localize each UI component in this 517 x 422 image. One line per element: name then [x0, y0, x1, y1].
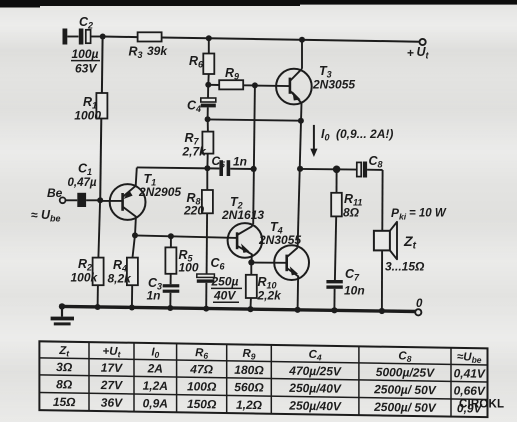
wire C8 to speaker drop [367, 169, 383, 171]
wire to speaker [381, 170, 383, 231]
wire R2 to ground rail [97, 285, 99, 307]
svg-text:2A: 2A [147, 361, 163, 375]
svg-text:C5: C5 [212, 154, 226, 170]
label R1 1000 [74, 95, 101, 123]
wire node B to R8 [206, 168, 208, 190]
watermark CIROKL [459, 399, 504, 411]
T4 base bar [285, 255, 288, 272]
T4 emitter line (down) [287, 268, 299, 277]
capacitor C4 [201, 98, 216, 107]
svg-text:10n: 10n [344, 284, 365, 298]
table data row 1 [56, 360, 486, 381]
wire C7 to ground rail [333, 289, 335, 310]
resistor R11 [331, 193, 342, 217]
capacitor C2 [79, 29, 101, 45]
svg-text:C6: C6 [211, 256, 226, 272]
wire R9 to node D [243, 84, 255, 86]
wire node C to R9 [208, 84, 219, 86]
svg-text:1,2Ω: 1,2Ω [236, 398, 263, 412]
T4 emitter arrow (NPN) [290, 266, 298, 275]
label R5 100 [179, 248, 199, 275]
label +Ut [407, 45, 430, 61]
svg-text:470µ/25V: 470µ/25V [288, 364, 342, 379]
resistor R2 [93, 258, 104, 286]
terminal +Ut [420, 39, 426, 45]
svg-text:C4: C4 [309, 349, 322, 363]
svg-text:2N1613: 2N1613 [221, 208, 264, 222]
svg-text:2N3055: 2N3055 [258, 233, 301, 247]
junction dot rail/R6 [206, 35, 212, 41]
svg-text:8,2k: 8,2k [108, 272, 133, 286]
label C6 value 250u/40V [211, 275, 243, 303]
T2 collector line (up) [237, 224, 253, 235]
label T3 [319, 64, 332, 80]
table grid [39, 341, 487, 417]
label R10 2.2k [257, 275, 283, 303]
svg-text:2,7k: 2,7k [182, 145, 208, 159]
wire bootstrap to output [208, 119, 301, 120]
label C3 1n [147, 276, 163, 303]
T2 emitter line (down) [237, 246, 252, 262]
junction dot ground/R10 [247, 306, 253, 312]
svg-text:0,47µ: 0,47µ [68, 177, 97, 189]
junction dot ground/C6 [203, 306, 209, 312]
T3 base bar [289, 78, 292, 94]
label T3 type 2N3055 [312, 78, 355, 92]
label R9 [225, 66, 239, 82]
T1 emitter line (up) [123, 168, 137, 197]
svg-text:1000: 1000 [74, 109, 101, 123]
svg-text:(0,9... 2A!): (0,9... 2A!) [336, 127, 393, 141]
junction dot ground/R4 [129, 305, 135, 311]
label T4 [270, 220, 283, 236]
resistor R3 [138, 32, 162, 41]
wire rail to R6 [208, 38, 210, 53]
terminal Be input [60, 197, 66, 203]
label T1 type 2N2905 [138, 185, 181, 199]
svg-text:100: 100 [179, 261, 199, 275]
label Zt range [385, 260, 425, 274]
ground symbol [51, 306, 74, 325]
label C6 [211, 256, 226, 272]
svg-text:C4: C4 [187, 99, 201, 115]
transistor T1 circle [110, 184, 146, 220]
label Ube input [31, 208, 61, 224]
T1 base bar [121, 193, 124, 211]
capacitor C3 [163, 284, 180, 293]
junction dot ground/C3 [167, 305, 173, 311]
label T2 type 2N1613 [221, 208, 264, 222]
svg-text:Pki: Pki [391, 206, 407, 222]
junction dot output node [297, 166, 303, 172]
svg-text:1n: 1n [147, 289, 161, 303]
wire T4 emitter to ground rail [297, 277, 300, 310]
svg-text:560Ω: 560Ω [234, 380, 264, 394]
label C7 10n [344, 267, 365, 298]
resistor R9 [219, 80, 243, 89]
label R11 8ohm [343, 192, 362, 220]
svg-text:8Ω: 8Ω [343, 206, 360, 220]
wire node A to R1 [101, 37, 104, 94]
label R7 2.7k [182, 131, 208, 159]
svg-text:0,9A: 0,9A [143, 396, 168, 410]
wire R7 to node B [206, 154, 208, 169]
wire speaker to ground rail [381, 251, 383, 311]
wire node C to C4 [207, 85, 209, 98]
wire Be to C1 [66, 199, 78, 201]
wire R5 top [170, 236, 172, 247]
label C1 [78, 162, 92, 178]
component value table [39, 341, 487, 417]
svg-text:2500µ/ 50V: 2500µ/ 50V [373, 382, 437, 397]
label C2 [79, 15, 93, 31]
junction dot bootstrap/output riser [298, 118, 304, 124]
svg-text:47Ω: 47Ω [189, 362, 213, 376]
label Zt [403, 233, 417, 252]
junction dot ground/T4e [295, 307, 301, 313]
wire T2e to T4 base [251, 262, 286, 264]
junction dot T1 collector [132, 232, 138, 238]
label R8 220 [183, 191, 204, 218]
label Io value [321, 127, 393, 143]
svg-text:R3: R3 [129, 45, 143, 61]
svg-text:100Ω: 100Ω [187, 379, 217, 393]
svg-text:0,66V: 0,66V [454, 384, 486, 399]
svg-text:R9: R9 [225, 66, 239, 82]
svg-text:R6: R6 [189, 54, 204, 70]
svg-text:Ube: Ube [41, 208, 61, 224]
svg-text:2N2905: 2N2905 [138, 185, 181, 199]
svg-text:220: 220 [183, 204, 204, 218]
label C4 [187, 99, 201, 115]
svg-text:250µ/40V: 250µ/40V [288, 381, 342, 396]
wire T2e node to R10 [250, 263, 252, 275]
svg-text:R9: R9 [242, 348, 255, 362]
wire node D to T2 collector [253, 85, 255, 224]
resistor R4 [127, 258, 138, 286]
label 0 [416, 298, 423, 310]
wire R1 to base node [100, 119, 101, 200]
svg-text:40V: 40V [213, 289, 236, 303]
wire R11 top [336, 169, 338, 192]
svg-text:+: + [407, 46, 414, 60]
label R6 [189, 54, 204, 70]
junction dot C5/T2 collector [251, 166, 257, 172]
label Be [47, 186, 63, 200]
capacitor C1 (solid body) [77, 193, 86, 207]
label T2 [230, 195, 243, 211]
junction dot R5 top [168, 233, 174, 239]
junction dot T2e/R10/T4 base [248, 259, 254, 265]
wire C4 to node E [207, 107, 209, 119]
label C5 [212, 154, 226, 170]
svg-text:17V: 17V [101, 361, 123, 375]
T1 emitter arrow (PNP, into base) [124, 190, 133, 199]
transistor T2 circle [228, 223, 263, 258]
transistor T3 circle [276, 69, 312, 105]
capacitor C8 [357, 162, 367, 178]
wire output riser [298, 103, 302, 248]
label C8 [369, 154, 383, 170]
svg-text:63V: 63V [75, 62, 97, 76]
wire C6 to ground rail [205, 283, 207, 309]
svg-text:+Ut: +Ut [103, 346, 122, 360]
svg-text:5000µ/25V: 5000µ/25V [376, 365, 435, 380]
junction dot node D (R9/T3 base/T2 collector) [252, 82, 258, 88]
wire R4 to ground rail [131, 285, 133, 307]
wire base line to C6 [206, 237, 208, 274]
svg-text:2N3055: 2N3055 [312, 78, 355, 92]
svg-text:R6: R6 [195, 347, 208, 361]
wire T1 collector to T2 base [135, 235, 237, 238]
wire C1 to base node [86, 199, 100, 201]
wire T1 collector to R4 [133, 236, 135, 258]
svg-text:39k: 39k [147, 44, 168, 58]
table data row 2 [56, 377, 486, 398]
junction dot ground symbol [59, 303, 65, 309]
current Io arrow [310, 125, 317, 157]
label Pki [391, 206, 447, 222]
svg-text:Zt: Zt [403, 233, 417, 252]
junction dot ground/speaker [379, 308, 385, 314]
label C2 value 100u/63V [71, 47, 100, 76]
table header row [58, 345, 482, 365]
svg-text:250µ: 250µ [211, 275, 239, 289]
ground rail [62, 306, 416, 311]
svg-text:C2: C2 [79, 15, 93, 31]
label R2 100k [71, 257, 99, 285]
speaker Zt horn [390, 222, 397, 259]
wire T1 emitter to node B [137, 167, 220, 168]
svg-text:3Ω: 3Ω [56, 360, 73, 374]
resistor R6 [203, 54, 214, 75]
svg-text:I0: I0 [321, 127, 330, 143]
svg-text:250µ/40V: 250µ/40V [288, 399, 342, 414]
wire C5 to T2 collector line [230, 168, 253, 170]
wire R6 to node C [207, 74, 209, 85]
T1 collector line (down) [123, 207, 136, 236]
svg-text:CIROKL: CIROKL [459, 399, 504, 411]
svg-text:180Ω: 180Ω [234, 363, 264, 377]
resistor R7 [202, 132, 213, 154]
speaker Zt box [374, 231, 390, 251]
T2 emitter arrow (NPN) [241, 244, 250, 253]
svg-text:3...15Ω: 3...15Ω [385, 260, 425, 274]
junction dot ground/C7 [331, 307, 337, 313]
wire R8 to T2 base line [206, 213, 208, 237]
resistor R10 [246, 275, 257, 298]
junction dot R11 top [333, 166, 341, 174]
svg-text:2500µ/ 50V: 2500µ/ 50V [373, 400, 437, 415]
junction dot ground/R2 [95, 304, 101, 310]
svg-text:Zt: Zt [58, 345, 70, 358]
label R3 39k [129, 44, 169, 60]
svg-text:1n: 1n [233, 155, 247, 169]
T3 collector line (up) [290, 69, 302, 81]
label T1 [144, 172, 157, 188]
border frame bar (scan edge) [0, 0, 517, 8]
label T4 type 2N3055 [258, 233, 301, 247]
svg-text:100µ: 100µ [72, 47, 99, 61]
table data row 3 [53, 395, 483, 416]
svg-text:100k: 100k [71, 271, 99, 285]
T3 emitter arrow (NPN) [292, 91, 300, 100]
svg-text:C8: C8 [369, 154, 383, 170]
svg-text:150Ω: 150Ω [187, 397, 217, 411]
capacitor C5 [219, 160, 230, 176]
resistor R1 [96, 93, 107, 119]
wire T3 collector to rail [301, 40, 303, 69]
svg-text:C8: C8 [398, 350, 411, 364]
label C1 value [68, 177, 97, 189]
svg-text:8Ω: 8Ω [56, 377, 73, 391]
svg-text:0: 0 [416, 298, 423, 310]
svg-text:I0: I0 [151, 346, 159, 359]
capacitor C6 [197, 274, 215, 283]
junction dot node C (R6/R9/C4) [205, 82, 211, 88]
junction dot rail/T3 collector [299, 37, 305, 43]
svg-text:36V: 36V [101, 396, 123, 410]
node A junction dot [100, 34, 106, 40]
svg-text:C7: C7 [345, 267, 360, 283]
svg-text:= 10 W: = 10 W [409, 208, 447, 220]
wire node E to R7 [207, 119, 209, 131]
transistor T4 circle [274, 245, 309, 280]
T3 emitter line (down) [290, 91, 302, 103]
svg-text:2,2k: 2,2k [257, 289, 283, 303]
svg-text:C1: C1 [78, 162, 92, 178]
wire C3 to ground rail [169, 293, 171, 308]
wire top rail left segment [103, 36, 138, 39]
chassis stub (C2 return) [63, 29, 79, 45]
svg-text:≈: ≈ [31, 208, 38, 222]
wire base node to R2 [98, 200, 100, 257]
svg-text:15Ω: 15Ω [53, 395, 76, 409]
capacitor C7 [326, 280, 342, 289]
terminal 0 (ground output) [415, 309, 421, 315]
svg-text:1,2A: 1,2A [143, 379, 168, 393]
wire R11 to C7 [335, 216, 336, 280]
wire R10 to ground rail [250, 298, 252, 309]
resistor R5 [165, 247, 176, 273]
T1 base wire [100, 200, 122, 202]
T4 collector line (up) [287, 248, 298, 258]
T3 base wire [255, 85, 290, 88]
wire output to C8 [300, 168, 357, 171]
resistor R8 [202, 190, 213, 213]
wire top rail right segment [162, 38, 420, 42]
junction dot base node [97, 197, 103, 203]
svg-text:≈Ube: ≈Ube [457, 351, 482, 365]
svg-text:Ut: Ut [417, 45, 430, 61]
wire R5 to C3 [170, 274, 172, 284]
T2 base bar [236, 232, 239, 249]
label R4 8.2k [108, 258, 133, 286]
junction dot node E (C4/R7/bootstrap) [205, 116, 211, 122]
svg-text:27V: 27V [100, 378, 123, 392]
label C5 value 1n [233, 155, 247, 169]
svg-text:0,41V: 0,41V [454, 366, 486, 381]
junction dot node B (R7/R8/C5/T1e) [204, 165, 210, 171]
